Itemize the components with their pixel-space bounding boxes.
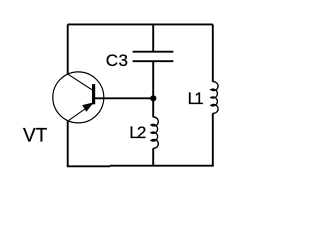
svg-text:1: 1 bbox=[194, 89, 203, 108]
svg-text:2: 2 bbox=[137, 123, 146, 142]
svg-text:VT: VT bbox=[23, 125, 48, 146]
svg-text:C3: C3 bbox=[106, 51, 129, 70]
